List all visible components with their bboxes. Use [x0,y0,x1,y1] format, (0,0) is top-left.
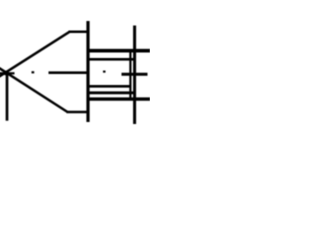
cone lower plateau line [67,111,90,114]
centerline dash 1 [49,71,88,74]
vertical B (right body face) [133,26,136,125]
horizontal H5 (lower outer line) [88,97,150,100]
horizontal H2 (upper inner line) [88,58,136,61]
cone upper plateau line [69,31,90,34]
centerline dash 0 (at apex) [0,72,15,74]
vertical A (left body face) [86,21,89,122]
vertical C (inner step face) [129,52,131,101]
vertical drop line from apex [6,72,9,120]
centerline dot 1 [32,71,35,73]
apex junction blob [3,71,9,76]
horizontal H3 (middle lower line) [88,85,131,88]
cone lower edge (diagonal from apex to lower bend) [0,68,68,112]
cone upper edge (diagonal from apex to upper bend) [0,32,70,77]
centerline dot 2 [103,71,106,73]
horizontal H1 (upper outer line) [88,49,150,53]
horizontal H4 (lower inner line) [88,91,136,94]
centerline solid right segment [122,73,148,76]
